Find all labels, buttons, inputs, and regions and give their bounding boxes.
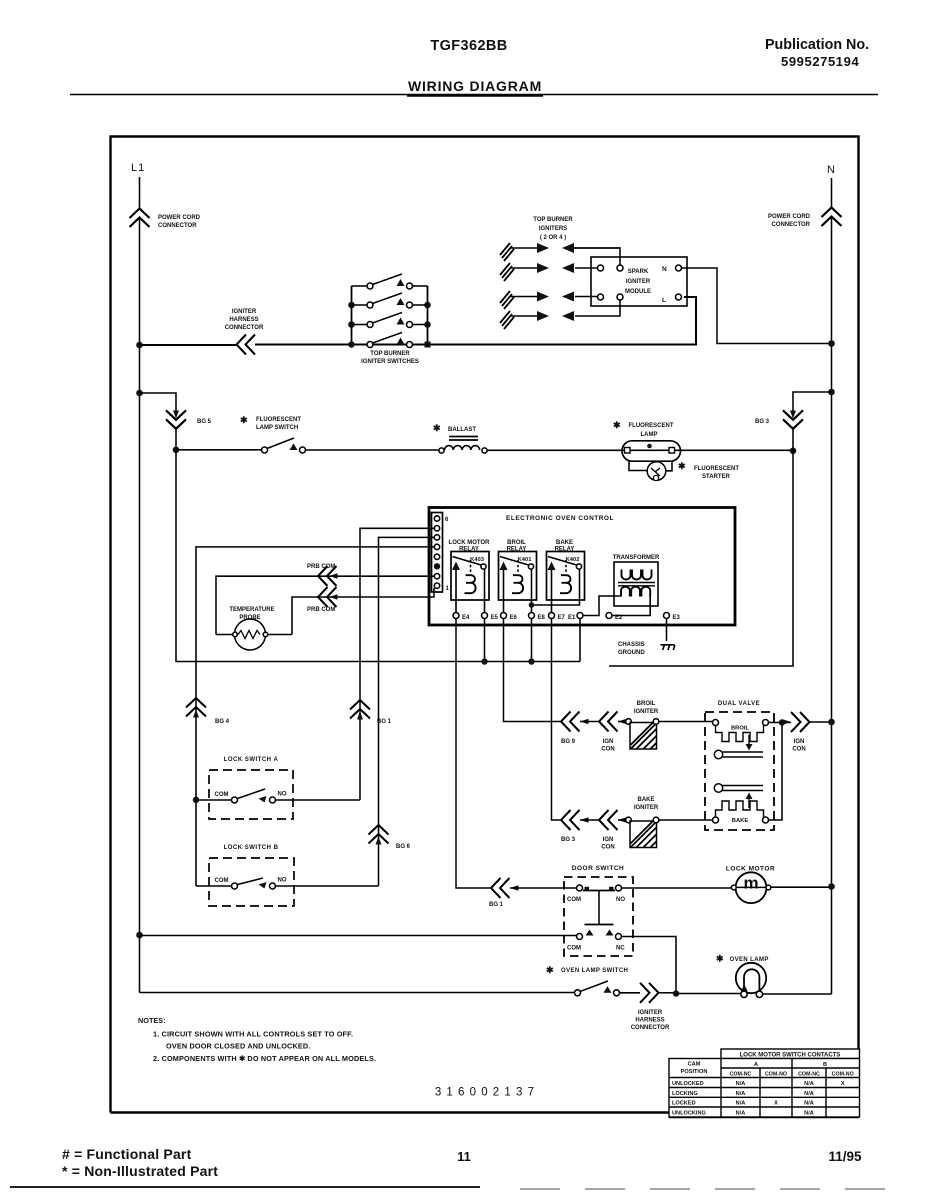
wire N to BG3 branch [793,392,832,413]
svg-text:CONNECTOR: CONNECTOR [631,1025,670,1031]
svg-text:UNLOCKED: UNLOCKED [672,1081,704,1087]
igniter switch 3 [352,313,428,328]
igniter 1 (spark gap and connector arrows) [500,243,620,261]
svg-text:L1: L1 [131,162,145,174]
igniter 4 [500,311,574,329]
svg-text:IGN: IGN [603,837,614,843]
svg-text:NC: NC [616,946,625,952]
chassis ground symbol [618,642,675,656]
svg-text:TEMPERATURE: TEMPERATURE [229,607,274,613]
svg-text:✱: ✱ [433,423,441,433]
top burner igniter switches block [348,286,431,348]
connector BG 5 (fluorescent feed) [166,410,186,449]
svg-text:IGNITER: IGNITER [634,709,659,715]
svg-text:HARNESS: HARNESS [229,317,258,323]
svg-text:2. COMPONENTS WITH ✱ DO NOT AP: 2. COMPONENTS WITH ✱ DO NOT APPEAR ON AL… [153,1054,376,1063]
igniter switch 4 [367,333,413,348]
wire spark module pin4 to igniter row 4 [575,300,620,316]
wire spark module pin3 to igniter row 3 [575,296,598,298]
svg-text:5995275194: 5995275194 [781,54,859,69]
node junction fluorescent row right [790,448,797,455]
svg-text:E5: E5 [491,615,499,621]
svg-text:X: X [841,1081,845,1087]
connector BG 3 (bake row) [561,810,598,830]
wire transformer secondary left to E1 [583,596,621,616]
svg-text:N/A: N/A [736,1081,746,1087]
terminal E6 [501,613,507,619]
svg-text:✱: ✱ [678,461,686,471]
node junction L1 / door switch lower row [136,932,143,939]
svg-text:COM-NC: COM-NC [730,1071,752,1077]
power cord connector N [822,208,842,227]
svg-text:FLUORESCENT: FLUORESCENT [629,423,674,429]
fluorescent lamp [613,420,681,461]
header rule [70,94,878,96]
wire E3 to chassis ground [666,619,668,642]
connector IGN CON bake left [599,810,627,830]
svg-text:LOCKING: LOCKING [672,1091,698,1097]
wire pin7 probe common upper [216,576,434,634]
svg-text:1. CIRCUIT SHOWN WITH ALL CONT: 1. CIRCUIT SHOWN WITH ALL CONTROLS SET T… [153,1030,353,1039]
wire E4 down to door switch [456,619,490,889]
svg-text:N/A: N/A [736,1101,746,1107]
svg-text:PRB COM: PRB COM [307,607,335,613]
svg-text:COM-NO: COM-NO [765,1071,787,1077]
svg-text:N: N [662,266,667,273]
wire lamp row to oven lamp [676,993,741,995]
svg-text:IGNITERS: IGNITERS [539,226,567,232]
svg-text:N/A: N/A [804,1091,814,1097]
connector BG 1 (door switch feed) [491,878,577,898]
svg-text:WIRING DIAGRAM: WIRING DIAGRAM [408,78,542,94]
svg-text:BG 9: BG 9 [561,739,576,745]
wire fluorescent right down to E2 return [609,451,793,666]
svg-text:LOCKED: LOCKED [672,1101,696,1107]
svg-text:BAKE: BAKE [637,797,654,803]
connector IGN CON valve return [783,712,829,732]
svg-text:316002137: 316002137 [435,1087,539,1099]
wire L1 feed bus (net A) [176,450,580,662]
svg-text:N/A: N/A [736,1110,746,1116]
svg-text:BAKE: BAKE [556,540,573,546]
footer rule [10,1186,480,1188]
svg-text:N/A: N/A [804,1081,814,1087]
header publication number [765,37,869,69]
svg-text:BALLAST: BALLAST [448,427,476,433]
wire spark module N to neutral bus [682,268,829,344]
terminal E7 [549,613,555,619]
wire spark module pin2 to igniter row 1 [575,248,620,265]
node junction L1 / fluorescent branch [136,390,143,397]
node junction N / lock motor [828,883,835,890]
label top burner igniters [533,217,573,241]
wire E7 down to bake igniter row [552,619,561,821]
svg-text:BROIL: BROIL [731,726,749,732]
wire spark module pin1 to igniter row 2 [575,267,598,269]
lock motor [726,866,829,904]
svg-text:CONNECTOR: CONNECTOR [771,222,810,228]
svg-text:LAMP SWITCH: LAMP SWITCH [256,425,298,431]
svg-text:N: N [827,164,836,176]
wire broil relay contact to E8 [531,569,533,612]
connector BG 1 (on lock switch A line) [350,700,370,720]
svg-text:N/A: N/A [804,1101,814,1107]
wire E6 down to broil igniter row [504,619,561,722]
svg-text:1: 1 [446,586,450,592]
svg-text:COM: COM [567,946,581,952]
svg-text:E2: E2 [615,615,623,621]
label IGN CON valve return [792,739,805,753]
svg-text:COM-NO: COM-NO [832,1071,854,1077]
svg-text:UNLOCKING: UNLOCKING [672,1110,706,1116]
igniter switch 2 [352,293,428,308]
svg-text:E3: E3 [673,615,681,621]
wire lock relay contact to E5 [484,569,486,612]
connector BG 9 [561,712,598,732]
wire door switch NC down to lamp row [622,937,677,995]
svg-text:CAM: CAM [688,1062,701,1068]
svg-text:BROIL: BROIL [507,540,526,546]
wire L1 vertical top [139,177,141,208]
svg-text:BG 6: BG 6 [396,844,411,850]
terminal E3 [664,613,670,619]
wire L1 branch to BG5 [140,393,177,413]
node junction bake contact / E8 [529,602,535,608]
svg-text:X: X [774,1101,778,1107]
svg-text:L: L [662,297,666,304]
svg-text:SPARK: SPARK [628,269,649,275]
svg-text:Publication No.: Publication No. [765,37,869,53]
svg-text:LOCK MOTOR SWITCH CONTACTS: LOCK MOTOR SWITCH CONTACTS [740,1053,841,1059]
terminal E2 [606,613,612,619]
svg-text:IGNITER: IGNITER [232,309,257,315]
connector PRB COM upper [318,566,338,586]
svg-text:✱: ✱ [240,415,248,425]
label fluorescent lamp switch [240,415,301,431]
lock switch A [193,757,360,819]
svg-text:COM: COM [215,878,229,884]
connector BG 3 (fluorescent neutral) [783,410,803,450]
relay K403 lock motor relay [449,540,491,612]
svg-text:LAMP: LAMP [641,432,658,438]
svg-text:CONNECTOR: CONNECTOR [158,223,197,229]
svg-text:11: 11 [457,1149,471,1164]
transformer T1 [613,555,660,606]
wire E8 down to net A [531,619,533,662]
spark igniter module U1 [591,257,687,306]
igniter 3 [500,291,574,309]
svg-text:BG 1: BG 1 [489,902,504,908]
svg-text:DOOR SWITCH: DOOR SWITCH [572,865,624,872]
svg-text:CONNECTOR: CONNECTOR [225,325,264,331]
footer legend [62,1146,218,1179]
svg-text:TRANSFORMER: TRANSFORMER [613,555,660,561]
lock motor switch contacts table [669,1049,860,1117]
wire pin3 to BG6 vertical [379,537,435,886]
node junction fluorescent row left [173,447,180,454]
notes block [138,1016,376,1063]
svg-text:BAKE: BAKE [732,818,749,824]
label IGN CON bake left [601,837,614,851]
svg-text:BG 3: BG 3 [755,419,770,425]
svg-text:# = Functional Part: # = Functional Part [62,1146,192,1162]
wire lamp to fluorescent row right [681,449,794,451]
power cord connector L1 [130,209,150,228]
terminal E4 [453,613,459,619]
node junction N / dual valve return [828,719,835,726]
node junction E5 / net A [481,658,487,664]
connector IGN CON broil left [599,712,627,732]
svg-text:E4: E4 [462,615,470,621]
wire bake relay contact jog to E8 [532,569,580,605]
svg-text:COM-NC: COM-NC [798,1071,820,1077]
svg-text:IGN: IGN [603,739,614,745]
oven lamp [716,954,832,998]
svg-text:CON: CON [601,845,614,851]
svg-text:6: 6 [445,517,449,523]
oven lamp switch [546,965,628,996]
connector PRB COM lower [318,587,338,607]
connector igniter harness (left chevrons) [237,335,256,355]
label IGN CON broil left [601,739,614,753]
svg-text:A: A [754,1062,758,1068]
node junction lamp row / door switch NC [673,990,679,996]
svg-text:N/A: N/A [736,1091,746,1097]
connector BG 4 (on lock switch line) [186,698,206,718]
svg-text:E1: E1 [568,615,576,621]
label igniter harness connector (oven lamp row) [631,1010,670,1031]
svg-text:GROUND: GROUND [618,650,645,656]
igniter switch 1 [352,274,428,289]
switch fluorescent lamp switch [262,438,306,453]
svg-text:BG 4: BG 4 [215,719,230,725]
svg-text:MODULE: MODULE [625,289,651,295]
bake igniter [626,797,713,848]
wire L1 vertical main [139,218,141,993]
svg-text:✱: ✱ [716,954,724,964]
svg-text:BG 5: BG 5 [197,419,212,425]
wire N vertical main [831,217,833,995]
svg-text:* = Non-Illustrated Part: * = Non-Illustrated Part [62,1163,218,1179]
connector BG 6 (on lock switch B line) [369,825,389,845]
svg-text:ELECTRONIC OVEN CONTROL: ELECTRONIC OVEN CONTROL [506,515,614,522]
svg-text:IGN: IGN [794,739,805,745]
svg-text:BROIL: BROIL [637,701,656,707]
wire L1 to door switch lower com [140,935,577,937]
svg-text:11/95: 11/95 [828,1149,862,1164]
wire fluorescent row to switch [176,449,262,451]
node junction L1 / igniter harness row [136,342,143,349]
svg-text:COM: COM [567,897,581,903]
svg-text:POWER CORD: POWER CORD [158,215,201,221]
terminal E1 [577,613,583,619]
node junction N / BG3 branch [828,389,835,396]
wire igniter harness row L1 [140,344,237,346]
svg-text:✱: ✱ [613,420,621,430]
svg-text:TOP BURNER: TOP BURNER [533,217,573,223]
wire igniter harness row to spark module L [255,297,696,345]
svg-text:CHASSIS: CHASSIS [618,642,645,648]
svg-text:CON: CON [792,747,805,753]
fluorescent starter [629,461,739,481]
wire N vertical top [831,178,833,207]
terminal E5 [482,613,488,619]
temperature probe [216,607,292,650]
svg-text:STARTER: STARTER [702,474,731,480]
connector igniter harness (oven lamp row) [620,983,674,1003]
svg-text:OVEN LAMP SWITCH: OVEN LAMP SWITCH [561,968,628,974]
svg-text:NO: NO [278,878,287,884]
wire pin4 to lock switches vertical [196,547,434,886]
node junction valve common [779,719,785,725]
svg-text:PRB COM: PRB COM [307,564,335,570]
igniter 2 [500,263,574,281]
EOC pin connector strip [432,513,450,593]
svg-text:OVEN DOOR CLOSED AND UNLOCKED.: OVEN DOOR CLOSED AND UNLOCKED. [166,1042,311,1051]
wire switch to ballast [306,449,440,451]
main border box [111,137,859,1118]
svg-text:DUAL VALVE: DUAL VALVE [718,701,760,707]
svg-text:FLUORESCENT: FLUORESCENT [694,466,739,472]
svg-text:✱: ✱ [546,965,554,975]
wire E5 down to net A [484,619,486,662]
svg-text:TGF362BB: TGF362BB [430,38,507,54]
svg-text:POSITION: POSITION [681,1069,708,1075]
svg-text:FLUORESCENT: FLUORESCENT [256,417,301,423]
svg-text:LOCK MOTOR: LOCK MOTOR [449,540,491,546]
svg-text:CON: CON [601,747,614,753]
wire pin8 probe common lower [292,588,434,635]
label top burner igniter switches [361,351,419,365]
door switch [564,865,733,956]
broil igniter [626,701,713,749]
wire E1 down to net A [579,619,581,662]
dual valve [705,701,774,830]
svg-text:E8: E8 [538,615,546,621]
wire ballast to fluorescent lamp [487,449,622,451]
svg-text:NO: NO [616,897,625,903]
svg-text:N/A: N/A [804,1110,814,1116]
wire valve bake right up to common [769,723,783,821]
svg-text:HARNESS: HARNESS [635,1018,664,1024]
svg-text:COM: COM [215,792,229,798]
svg-text:IGNITER: IGNITER [626,279,651,285]
svg-text:B: B [823,1062,827,1068]
svg-text:NO: NO [278,792,287,798]
svg-text:IGNITER SWITCHES: IGNITER SWITCHES [361,359,419,365]
svg-text:TOP BURNER: TOP BURNER [370,351,410,357]
electronic oven control box [429,508,735,626]
node junction E8 / net A [528,658,534,664]
svg-text:m: m [743,874,758,893]
node junction N / spark module [828,340,835,347]
lock switch B [196,845,379,906]
svg-text:( 2 OR 4 ): ( 2 OR 4 ) [540,235,566,241]
terminal E8 [529,613,535,619]
ballast L1 [433,423,487,453]
svg-text:E7: E7 [558,615,566,621]
svg-text:E6: E6 [510,615,518,621]
relay K401 broil relay [499,540,537,612]
svg-text:LOCK SWITCH B: LOCK SWITCH B [224,845,279,851]
wire L1 down to oven lamp switch row [140,992,575,994]
svg-text:IGNITER: IGNITER [634,805,659,811]
wire transformer secondary right to E2 [612,594,650,616]
svg-text:POWER CORD: POWER CORD [768,214,811,220]
relay K402 bake relay [547,540,585,612]
svg-text:NOTES:: NOTES: [138,1016,166,1025]
svg-text:BG 3: BG 3 [561,837,576,843]
wire pin2 to BG1 vertical [360,528,434,800]
wire valve common [769,722,792,724]
svg-text:IGNITER: IGNITER [638,1010,663,1016]
svg-text:LOCK SWITCH A: LOCK SWITCH A [224,757,279,763]
